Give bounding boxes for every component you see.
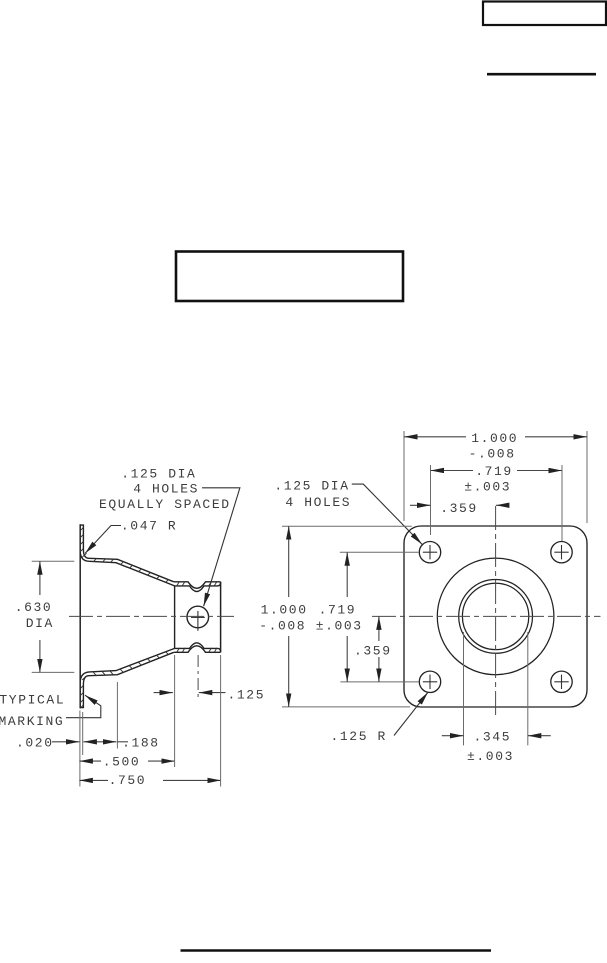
svg-text:.719: .719 — [475, 464, 513, 479]
hole bottom right — [551, 671, 572, 692]
svg-text:.750: .750 — [109, 773, 147, 788]
svg-text:4 HOLES: 4 HOLES — [285, 495, 351, 510]
tube right face — [220, 582, 222, 653]
section hatching ticks — [80, 527, 217, 708]
tube left wall — [174, 586, 176, 649]
tube top inner line with hole arc — [175, 583, 221, 592]
extension line tube left wall — [174, 655, 176, 767]
svg-text:DIA: DIA — [26, 616, 54, 631]
svg-text:4 HOLES: 4 HOLES — [133, 481, 199, 496]
tube top outer line with hole arc — [174, 582, 221, 589]
flange face edge line — [79, 524, 81, 708]
extension line flange top left — [282, 525, 412, 527]
dim .020 leader and extension lines — [52, 741, 79, 743]
dim .188 arrows and extension line — [83, 741, 116, 743]
vertical centerline — [495, 506, 497, 717]
svg-text:.500: .500 — [103, 755, 141, 770]
hole bottom left — [419, 671, 440, 692]
svg-text:1.000: 1.000 — [471, 431, 518, 446]
svg-text:.359: .359 — [440, 501, 478, 516]
horizontal centerline — [372, 615, 601, 617]
hole top right — [551, 542, 572, 563]
left view horizontal centerline — [69, 615, 234, 617]
extension line hole right top — [561, 465, 563, 541]
dim .359 left — [378, 616, 380, 641]
cone wall bottom inner line — [90, 648, 175, 672]
dim .630 DIA dimension line with arrows — [39, 561, 41, 595]
svg-text:±.003: ±.003 — [464, 479, 511, 494]
svg-text:.125 DIA: .125 DIA — [274, 479, 349, 494]
svg-text:.359: .359 — [354, 644, 392, 659]
svg-text:.125 R: .125 R — [331, 729, 387, 744]
svg-text:1.000: 1.000 — [261, 602, 308, 617]
leader for .047 R — [85, 526, 121, 554]
leader for 4 HOLES label — [202, 488, 240, 607]
svg-text:.719: .719 — [319, 602, 357, 617]
dim .750 — [79, 779, 108, 781]
dim 1.000 -.008 left — [288, 526, 290, 597]
tube hole circle — [187, 606, 209, 628]
svg-text:.188: .188 — [122, 736, 160, 751]
dim .500 — [79, 760, 101, 762]
extension line hole top row — [340, 551, 419, 553]
dim .345 ±.003 bottom extension lines — [463, 632, 465, 745]
tube hole vertical centerline below — [197, 655, 199, 701]
hole top left — [419, 542, 440, 563]
flange sheet upper section — [80, 525, 89, 558]
svg-text:-.008: -.008 — [469, 446, 516, 461]
svg-text:.020: .020 — [16, 736, 54, 751]
svg-text:MARKING: MARKING — [0, 714, 64, 729]
extension line hole left top — [430, 465, 432, 535]
extension line hole bottom row — [340, 681, 418, 683]
dim .630 DIA extension lines — [32, 560, 75, 562]
extension line flange right top — [586, 431, 588, 523]
dim .125 wall: arrows outside — [154, 692, 173, 694]
title block box top right — [483, 2, 606, 26]
svg-text:.047 R: .047 R — [121, 518, 177, 533]
svg-text:EQUALLY SPACED: EQUALLY SPACED — [99, 497, 231, 512]
svg-text:TYPICAL: TYPICAL — [0, 692, 65, 707]
cone base circle — [437, 558, 554, 675]
cone wall bottom outer line — [89, 652, 174, 675]
tube bottom inner line with hole arc — [175, 643, 221, 652]
dim .345 ±.003 bottom — [442, 735, 464, 737]
extension line tube right face — [220, 655, 222, 787]
flange sheet lower section — [80, 676, 89, 708]
svg-text:±.003: ±.003 — [467, 749, 514, 764]
dim .719 ±.003 left — [346, 552, 348, 597]
tube hole crosshair — [191, 616, 205, 618]
tube outer circle — [459, 580, 533, 654]
dim 1.000 -.008 top — [404, 436, 466, 438]
bottom rule — [181, 949, 492, 951]
svg-text:.125 DIA: .125 DIA — [121, 466, 196, 481]
cone wall top outer line — [89, 558, 174, 582]
flange outer bend top — [80, 552, 89, 562]
svg-text:-.008: -.008 — [259, 618, 306, 633]
leader to top left hole — [352, 484, 422, 544]
horizontal rule top right — [487, 73, 596, 76]
leader for TYPICAL MARKING — [66, 695, 101, 718]
svg-text:.630: .630 — [15, 600, 53, 615]
svg-text:.125: .125 — [228, 688, 266, 703]
empty label box center — [176, 252, 403, 302]
dim .359 top — [410, 504, 431, 506]
cone wall top inner line — [90, 561, 175, 586]
flange outer bend bottom — [80, 672, 89, 682]
svg-text:.345: .345 — [474, 729, 512, 744]
tube bore circle — [462, 583, 528, 649]
dim .719 ±.003 top — [431, 470, 474, 472]
tube bottom outer line with hole arc — [174, 646, 221, 653]
flange outline rounded square — [404, 526, 587, 707]
extension line flange bottom left — [282, 706, 410, 708]
svg-text:±.003: ±.003 — [316, 618, 363, 633]
extension line flange left top — [403, 431, 405, 521]
